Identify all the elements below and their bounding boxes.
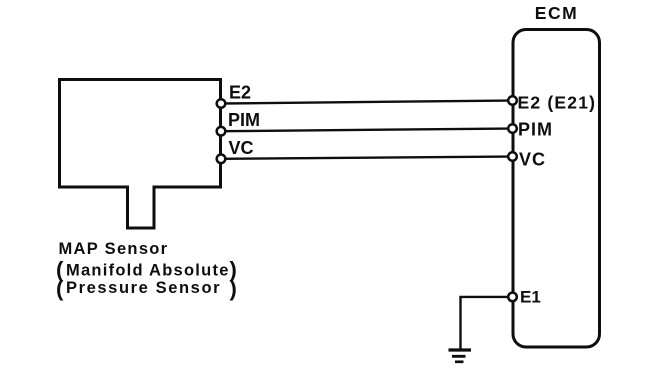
terminal VC (sensor side) bbox=[217, 155, 226, 164]
svg-text:Manifold Absolute: Manifold Absolute bbox=[66, 262, 230, 280]
svg-text:Pressure Sensor: Pressure Sensor bbox=[66, 279, 221, 297]
wire E2 (sensor to ECM) bbox=[222, 101, 513, 104]
svg-text:PIM: PIM bbox=[518, 120, 553, 140]
MAP sensor body outline bbox=[60, 80, 221, 229]
wire E1 to ground bbox=[461, 297, 509, 350]
svg-text:PIM: PIM bbox=[228, 110, 260, 130]
svg-text:MAP Sensor: MAP Sensor bbox=[59, 240, 169, 258]
terminal VC on ECM bbox=[508, 152, 517, 161]
terminal E2(E21) on ECM bbox=[508, 96, 517, 105]
svg-text:VC: VC bbox=[519, 150, 546, 170]
svg-text:E2: E2 bbox=[229, 83, 251, 103]
ground symbol bbox=[449, 350, 472, 362]
terminal PIM on ECM bbox=[508, 124, 517, 133]
svg-text:E1: E1 bbox=[520, 288, 541, 307]
svg-text:): ) bbox=[230, 276, 237, 301]
terminal PIM (sensor side) bbox=[217, 127, 226, 136]
svg-text:E2 (E21): E2 (E21) bbox=[518, 93, 597, 113]
terminal E2 (sensor side) bbox=[217, 99, 226, 108]
ECM box bbox=[513, 30, 600, 348]
svg-text:ECM: ECM bbox=[535, 3, 578, 23]
wire VC (sensor to ECM) bbox=[222, 157, 513, 159]
svg-text:(: ( bbox=[56, 276, 64, 301]
wire PIM (sensor to ECM) bbox=[222, 129, 513, 132]
terminal E1 on ECM bbox=[508, 293, 517, 302]
svg-text:VC: VC bbox=[229, 138, 254, 158]
